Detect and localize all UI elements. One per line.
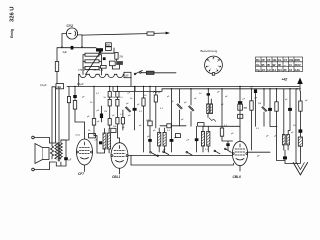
wire drop x283.8: [283, 89, 285, 135]
svg-text:1M: 1M: [104, 111, 107, 113]
svg-text:µF: µF: [126, 103, 129, 105]
svg-text:500: 500: [106, 44, 111, 47]
svg-text:0,1: 0,1: [139, 111, 143, 113]
wire V3 right pin: [248, 151, 270, 153]
svg-text:0,1µF: 0,1µF: [40, 83, 47, 87]
IF transformer 2: [158, 128, 167, 152]
wire cluster down: [112, 65, 119, 69]
capacitor blob speaker: [64, 157, 68, 160]
labels right mid: [217, 92, 261, 136]
resistor x109.7 upper: [108, 92, 111, 98]
box above V2: [111, 128, 116, 132]
wire drop x117.4: [116, 86, 118, 91]
misc value labels: [82, 93, 294, 152]
rectifier tube CY2: [66, 24, 77, 39]
svg-text:0,1: 0,1: [120, 97, 124, 99]
wire dial line to arrow: [154, 32, 166, 34]
svg-text:µF: µF: [167, 96, 170, 98]
capacitor blob x270: [268, 108, 272, 111]
junction dots: [61, 46, 297, 89]
box lower white: [110, 61, 116, 66]
svg-text:0,1: 0,1: [160, 108, 164, 110]
wire transformer right taps: [99, 55, 102, 75]
bus rail C: [113, 86, 162, 91]
capacitor blob left of resistor: [103, 57, 106, 60]
capacitor blob x302: [299, 129, 303, 132]
resistor x155: [154, 86, 157, 128]
resistor x117.4 lower: [116, 118, 119, 124]
wire ballast down: [130, 77, 132, 86]
capacitor blob osc left: [195, 138, 199, 141]
svg-text:µF: µF: [217, 92, 220, 94]
wire terminal bottom: [34, 162, 49, 170]
trimmer arrow: [125, 107, 130, 112]
svg-text:Bezeichnung: Bezeichnung: [201, 49, 218, 53]
wire V2 top: [119, 138, 121, 143]
svg-text:CY2 CF7 CF7 CBL1 (LA): CY2 CF7 CF7 CBL1 (LA): [78, 69, 103, 72]
resistor x109.7 mid: [108, 99, 111, 106]
svg-text:(M): (M): [146, 120, 150, 122]
wire mains line right: [141, 72, 176, 74]
osc coil lower: [201, 126, 210, 152]
wire x240 drop: [239, 86, 241, 141]
resistor x117.4 mid: [116, 99, 119, 106]
tube data table: [256, 57, 303, 72]
svg-text:µF: µF: [251, 87, 254, 89]
wire drop x75: [74, 86, 76, 95]
svg-text:µF: µF: [137, 104, 140, 106]
svg-text:CY2: CY2: [67, 24, 74, 28]
svg-text:CB: CB: [273, 58, 277, 62]
svg-text:LW: LW: [125, 74, 129, 78]
fuse: [146, 71, 154, 74]
trimmer diag x264: [262, 107, 267, 112]
capacitor dark box on rail: [96, 48, 103, 51]
dial arrowhead: [166, 32, 170, 35]
svg-text:CBL6: CBL6: [233, 175, 242, 179]
svg-text:µF: µF: [187, 140, 190, 142]
svg-text:µF: µF: [225, 96, 228, 98]
svg-text:2,5: 2,5: [262, 68, 266, 72]
svg-text:CF: CF: [262, 58, 266, 62]
wire V1 bottom: [84, 165, 86, 172]
resistor box on y123: [198, 123, 204, 127]
capacitor blob x228: [226, 143, 229, 146]
wire loop bottom: [131, 156, 233, 166]
svg-text:µF: µF: [305, 100, 308, 102]
wire third vertical: [58, 87, 60, 141]
svg-text:µF: µF: [255, 98, 258, 100]
box on x150: [148, 121, 152, 126]
capacitor blob x240: [238, 101, 242, 104]
wire drop x296: [295, 89, 297, 164]
svg-text:8,4: 8,4: [278, 68, 282, 72]
resistor x109.7 lower: [108, 119, 111, 126]
wire resistor top to bus: [51, 87, 53, 143]
wire drop x97: [97, 136, 105, 153]
dropper column x69: [61, 86, 71, 140]
switch squiggle osc: [209, 118, 216, 121]
svg-text:0,1µF: 0,1µF: [77, 82, 84, 86]
resistor x276.5: [275, 89, 285, 161]
labels mid: [87, 93, 143, 132]
tube V1 CF7: [77, 139, 93, 165]
svg-text:+42: +42: [282, 77, 288, 81]
svg-text:50: 50: [144, 95, 147, 97]
svg-text:a: a: [207, 60, 208, 62]
svg-text:µF: µF: [243, 99, 246, 101]
capacitor 4uF on rail: [71, 46, 74, 50]
svg-text:µF: µF: [184, 102, 187, 104]
svg-text:CF: CF: [267, 58, 271, 62]
svg-text:g: g: [213, 58, 214, 60]
svg-text:LW: LW: [289, 58, 293, 62]
speaker terminal bottom: [32, 168, 35, 171]
resistor x122.9: [121, 118, 124, 124]
resistor x75: [73, 101, 76, 110]
wire drop x94: [93, 86, 95, 118]
wire drop x109.7: [109, 86, 111, 91]
svg-text:µF: µF: [153, 130, 156, 132]
box 4W on rail: [56, 84, 64, 89]
title Emig 326 U: [10, 7, 16, 38]
labels right col: [266, 100, 308, 138]
resistor in left drop: [55, 48, 62, 87]
svg-text:50k: 50k: [113, 126, 117, 128]
speaker: [35, 144, 49, 164]
box 500 lower: [106, 47, 112, 51]
osc coil upper: [207, 104, 213, 114]
wire transformer left bus: [83, 55, 85, 75]
wire V3 bottom: [239, 166, 241, 171]
capacitor blob IF2 right: [170, 139, 174, 142]
svg-text:µF: µF: [231, 133, 234, 135]
wire V2 right pin to loop: [128, 155, 131, 157]
pentagon box: [175, 134, 180, 138]
wire B+ line to dial: [82, 34, 147, 36]
wire top bar to resistor: [99, 48, 114, 53]
aerial terminal +42: [282, 77, 303, 91]
fuse on dial line: [147, 32, 154, 35]
svg-text:50: 50: [90, 102, 93, 104]
svg-text:2W: 2W: [119, 56, 123, 59]
svg-text:µF: µF: [128, 115, 131, 117]
svg-text:µF: µF: [97, 121, 100, 123]
svg-text:µF: µF: [194, 98, 197, 100]
heater chain CY2 CF7 CF7 CBL1: [78, 69, 124, 78]
wire secondary top: [61, 140, 66, 157]
wire V2 bottom: [119, 168, 121, 174]
output coil pair right: [282, 135, 289, 151]
svg-text:5k: 5k: [104, 97, 107, 99]
box 500 upper: [106, 43, 112, 47]
capacitor blob x255.5: [254, 89, 257, 93]
resistor x302: [299, 91, 302, 129]
svg-text:(0,1): (0,1): [76, 135, 81, 137]
wave switch 3: [214, 150, 220, 154]
wire tube left lead: [62, 34, 66, 48]
svg-text:µF: µF: [285, 99, 288, 101]
wire primary top to bus: [52, 87, 56, 143]
wave switch 2b: [163, 151, 169, 155]
earth arrow: [293, 152, 307, 175]
capacitor blob x290: [289, 89, 291, 108]
wire terminal top: [34, 138, 49, 144]
resistor x143.5: [142, 98, 145, 106]
capacitor blob x75: [73, 95, 77, 98]
tube socket diagram: [201, 49, 223, 75]
svg-text:220V: 220V: [294, 58, 300, 62]
svg-text:0,1: 0,1: [256, 128, 260, 130]
resistor across primary: [50, 143, 56, 162]
box lower dark: [116, 61, 123, 65]
svg-text:—: —: [284, 63, 287, 67]
svg-text:0,1: 0,1: [96, 93, 100, 95]
svg-text:Emig: Emig: [10, 29, 14, 38]
wire V1 top: [84, 134, 86, 140]
capacitor blob below coil: [283, 156, 287, 159]
svg-text:Rö: Rö: [256, 58, 260, 62]
svg-text:µF: µF: [291, 132, 294, 134]
svg-text:0,1: 0,1: [167, 130, 171, 132]
svg-text:µF: µF: [69, 159, 72, 162]
horizontal link y125.8: [160, 125, 186, 127]
wire drop x150: [149, 86, 151, 139]
wave switch 2: [186, 151, 192, 155]
right column x270: [269, 89, 271, 108]
svg-text:CF7: CF7: [78, 172, 84, 176]
svg-text:Ug: Ug: [256, 68, 260, 72]
wire rectifier cathode rail: [62, 47, 96, 49]
svg-text:µF: µF: [128, 93, 131, 95]
wire loop top: [131, 155, 233, 157]
svg-text:µF: µF: [181, 119, 184, 121]
svg-text:µF: µF: [158, 92, 161, 94]
svg-text:µF: µF: [122, 127, 125, 129]
wire heater chain left down: [78, 74, 80, 86]
power transformer winding 3: [85, 66, 99, 69]
svg-text:µF: µF: [171, 101, 174, 103]
mains switch: [134, 70, 142, 74]
svg-text:1,9: 1,9: [267, 68, 271, 72]
svg-text:µF: µF: [82, 97, 85, 99]
bus rail A: [67, 85, 299, 87]
svg-text:µF: µF: [87, 116, 90, 118]
svg-text:µF: µF: [139, 125, 142, 127]
speaker terminal top: [32, 136, 35, 139]
IF transformer 1: [103, 129, 111, 154]
svg-text:CY: CY: [284, 58, 288, 62]
capacitor blob x150: [148, 139, 152, 142]
svg-text:µF: µF: [257, 156, 260, 158]
power transformer winding 1: [85, 53, 99, 56]
box x240 lower: [238, 114, 243, 118]
voltage selector arrow: [86, 51, 102, 75]
wave switch 4: [225, 148, 232, 152]
svg-text:6,1: 6,1: [273, 68, 277, 72]
wire box to drop: [96, 135, 98, 137]
wave switch 1: [150, 152, 159, 157]
resistor x222: [221, 89, 223, 128]
coil x302: [298, 137, 302, 146]
power transformer winding 2: [85, 60, 99, 63]
box above heater labels: [101, 65, 107, 68]
wire tube right lead: [78, 35, 82, 48]
resistor box x222: [220, 128, 223, 136]
box on link: [167, 124, 171, 128]
svg-text:µF: µF: [112, 115, 115, 117]
svg-text:4µF: 4µF: [63, 50, 68, 54]
trimmer diag 3: [189, 106, 194, 111]
svg-text:CL: CL: [278, 58, 282, 62]
horizontal rail y126.3: [203, 125, 240, 127]
resistor x117.4 upper: [116, 92, 119, 98]
tube V3 CBL6: [232, 141, 247, 165]
trimmer diag 2: [177, 104, 182, 109]
svg-text:µF: µF: [221, 104, 224, 106]
svg-text:210V: 210V: [295, 63, 301, 67]
wire drop x143.5: [143, 86, 145, 98]
capacitor blob x101: [100, 114, 103, 119]
bus rail B: [162, 88, 300, 90]
output transformer: [55, 142, 62, 161]
box above V1: [89, 134, 96, 138]
svg-text:25k: 25k: [112, 97, 116, 99]
labels trimmer: [144, 92, 197, 139]
svg-text:µF: µF: [97, 110, 100, 112]
svg-text:326 U: 326 U: [10, 7, 16, 22]
wire secondary bottom: [56, 160, 66, 166]
ballast box LW: [124, 72, 131, 77]
resistor box x240: [238, 104, 243, 110]
resistor x251.5: [250, 89, 253, 150]
capacitor blob osc top: [207, 93, 210, 95]
svg-text:5k: 5k: [130, 98, 133, 100]
resistor 2W: [115, 53, 124, 62]
tube V2 CBL1: [111, 143, 128, 169]
svg-text:50: 50: [199, 93, 202, 95]
svg-text:µF: µF: [266, 136, 269, 138]
svg-text:1M: 1M: [258, 103, 261, 105]
capacitor blob x134.6: [133, 108, 137, 111]
zigzag mark above resistor: [153, 92, 158, 94]
capacitor blob IF1: [99, 141, 102, 144]
svg-text:50: 50: [88, 130, 91, 132]
svg-text:CBL1: CBL1: [112, 175, 121, 179]
svg-text:µF: µF: [163, 149, 166, 151]
resistor x94: [92, 119, 95, 126]
